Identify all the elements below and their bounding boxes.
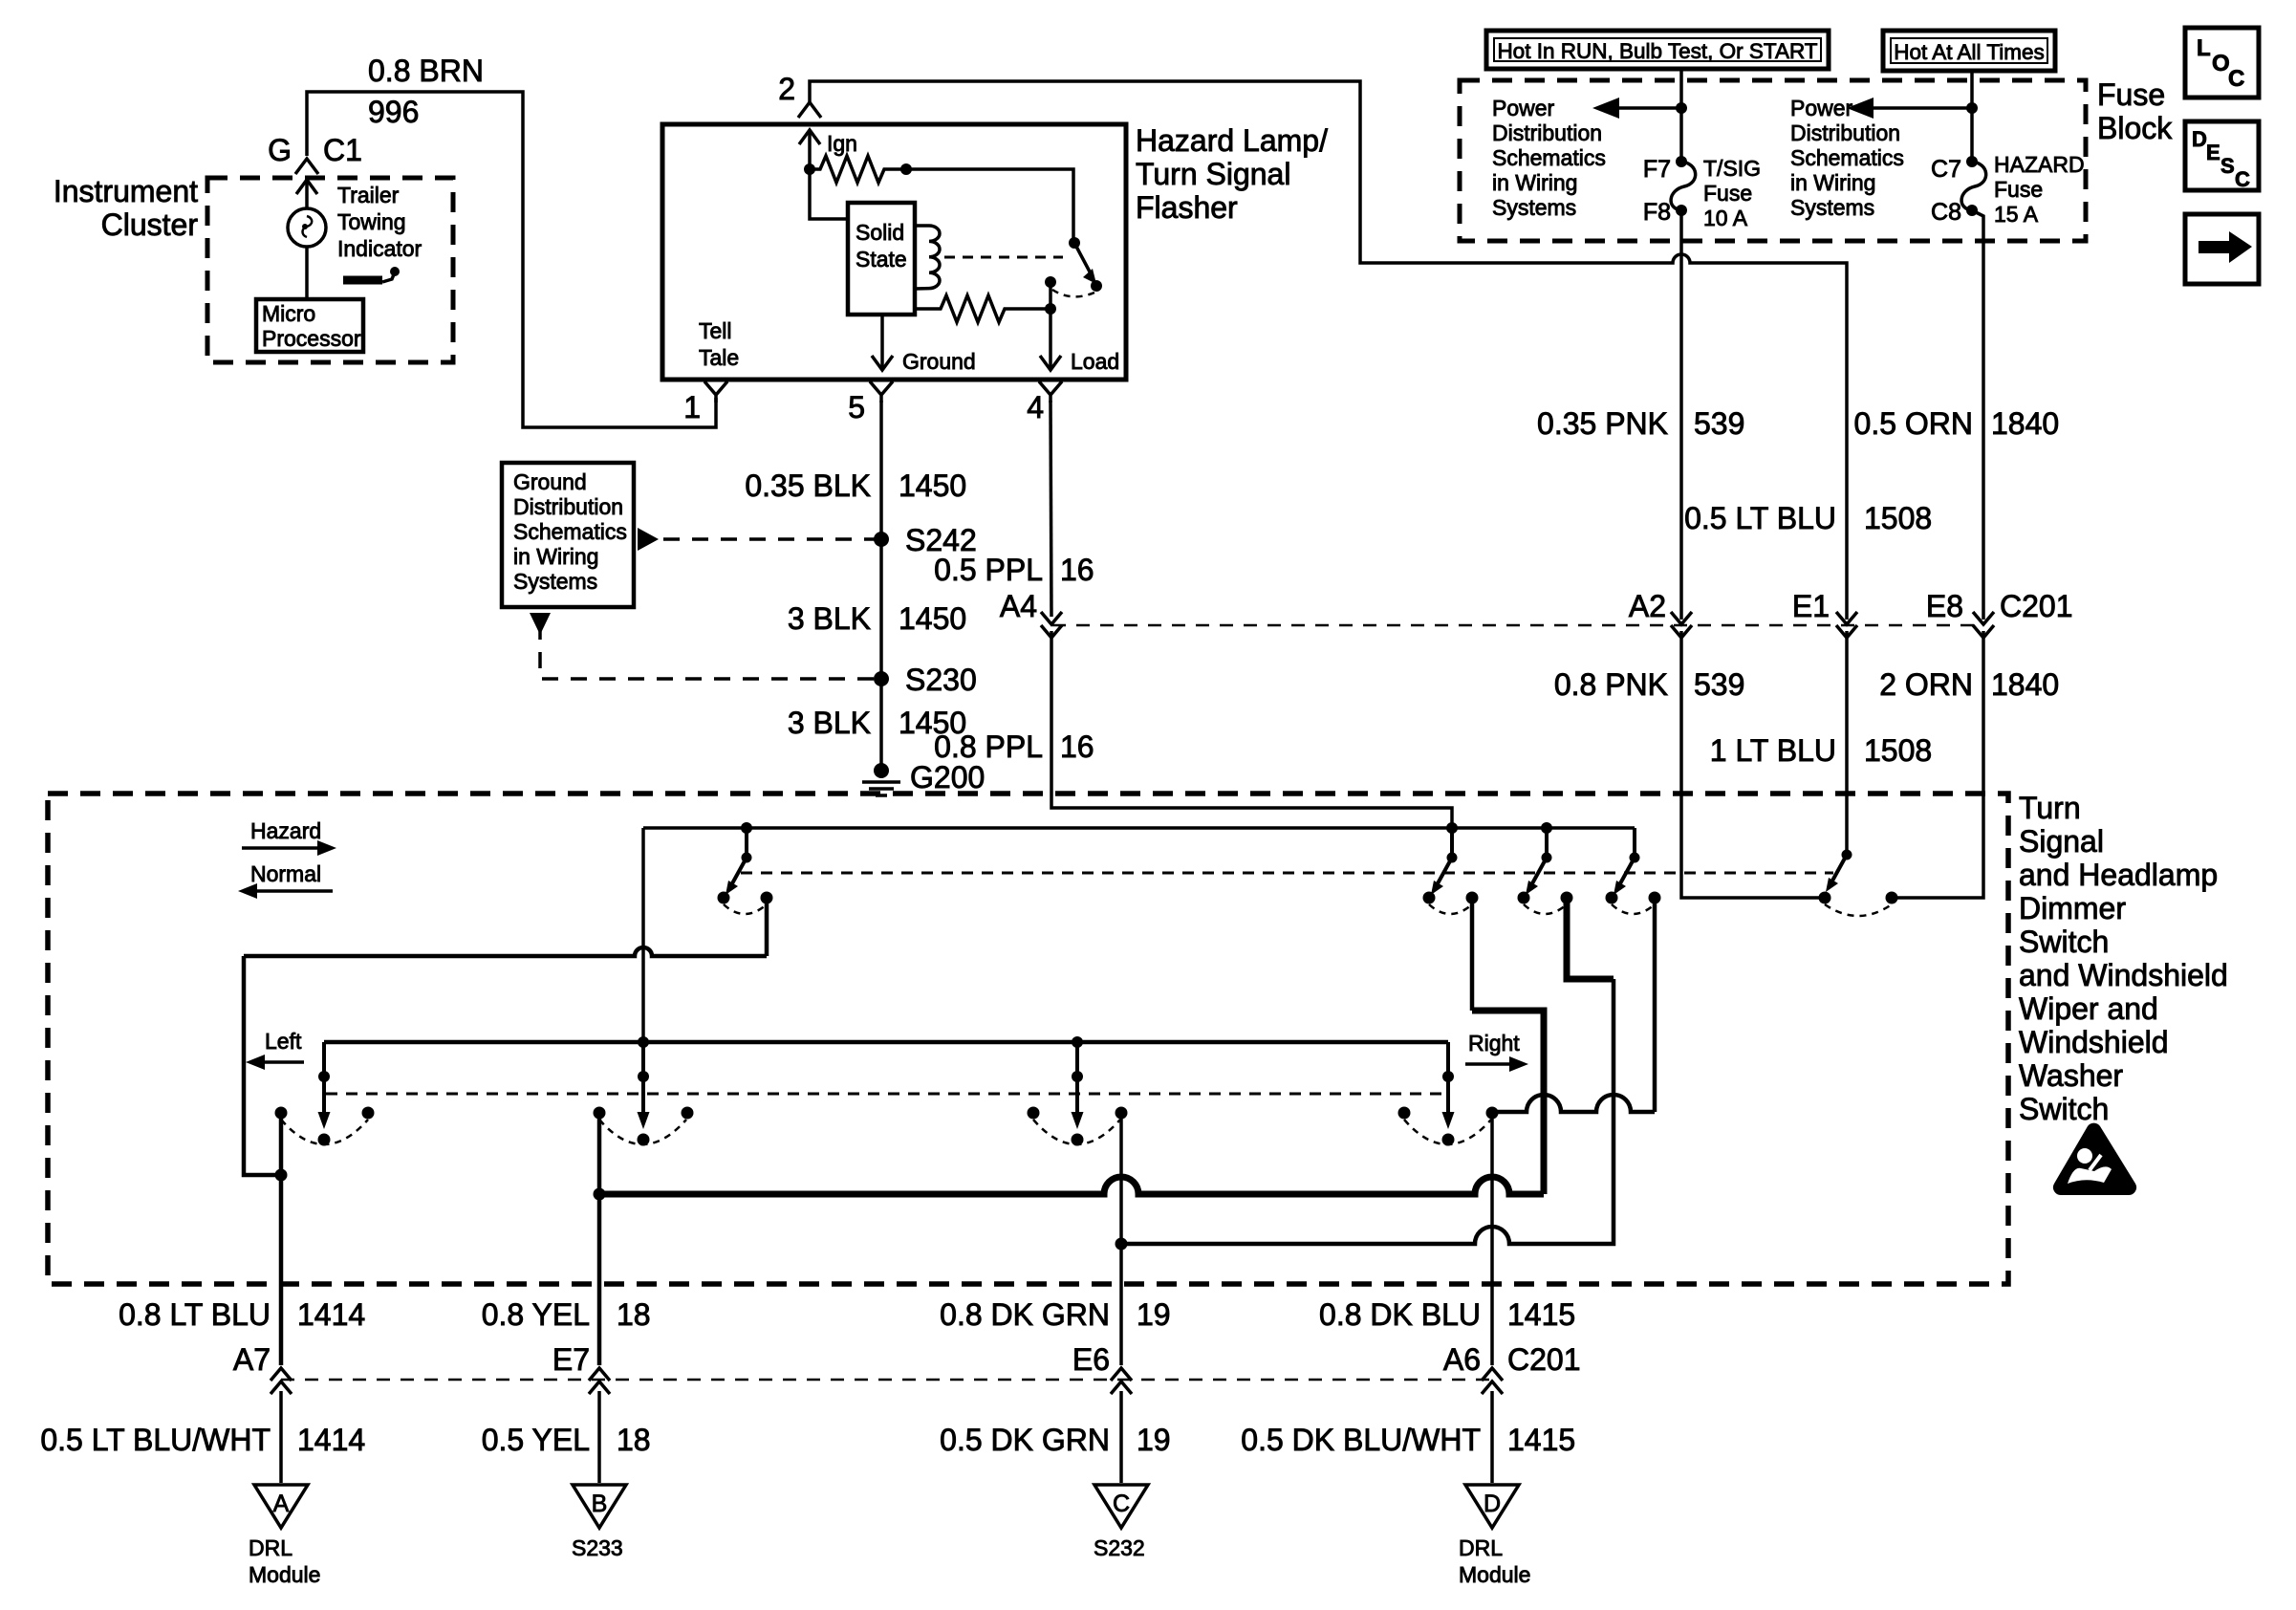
svg-text:E7: E7 (552, 1342, 590, 1377)
svg-text:3 BLK: 3 BLK (788, 601, 871, 636)
svg-text:0.35 BLK: 0.35 BLK (745, 468, 871, 503)
label Hazard with arrow (242, 818, 336, 856)
svg-text:1 LT BLU: 1 LT BLU (1710, 733, 1836, 768)
svg-text:1450: 1450 (899, 601, 966, 636)
label T/SIG Fuse 10 A (1703, 156, 1761, 230)
svg-text:1414: 1414 (297, 1297, 365, 1332)
ground distribution callout box (502, 463, 634, 607)
resistor ign (810, 156, 906, 183)
svg-text:D: D (1484, 1490, 1501, 1517)
trailer towing indicator lamp (288, 208, 326, 247)
arrow to power distribution left (1592, 98, 1681, 119)
callout arrow to S230 (530, 613, 877, 679)
node power feed right (1966, 102, 1978, 114)
svg-text:Distribution: Distribution (1492, 120, 1602, 145)
label Fuse Block (2097, 77, 2173, 145)
load arrow (1040, 309, 1061, 370)
svg-text:1: 1 (683, 390, 701, 424)
node LT BLU junction (275, 1169, 288, 1182)
lower switch 3 (1028, 1042, 1128, 1146)
svg-text:B: B (592, 1490, 608, 1517)
connector E7 chevrons (589, 1368, 610, 1394)
upper switch 2 (1423, 828, 1479, 914)
turn signal switch dashed box (48, 794, 2008, 1284)
svg-text:Indicator: Indicator (337, 236, 422, 261)
wire 0.8 BRN 996 from C1 to flasher pin 1 (307, 92, 716, 427)
label Tell Tale (699, 318, 739, 370)
node hazard feed 781 (741, 822, 752, 834)
svg-text:0.8 YEL: 0.8 YEL (482, 1297, 590, 1332)
wire switch4 output down (1653, 898, 1657, 1112)
lower switch 1 (275, 1042, 375, 1146)
svg-text:0.8 PPL: 0.8 PPL (934, 729, 1043, 764)
dashed actuation line (944, 256, 1063, 259)
svg-text:Schematics: Schematics (1790, 145, 1904, 170)
wire node to relay switch (906, 169, 1073, 243)
svg-text:S232: S232 (1094, 1535, 1145, 1560)
svg-text:Hazard Lamp/: Hazard Lamp/ (1136, 123, 1328, 158)
lower feed line left right (324, 1040, 1448, 1045)
svg-text:0.5 ORN: 0.5 ORN (1854, 406, 1973, 441)
svg-text:Fuse: Fuse (1994, 177, 2043, 202)
svg-text:in Wiring: in Wiring (1492, 170, 1577, 195)
svg-text:0.8 BRN: 0.8 BRN (368, 54, 484, 88)
node power feed left (1676, 102, 1687, 114)
warning triangle icon (2053, 1123, 2136, 1195)
svg-text:E8: E8 (1926, 589, 1963, 623)
wire 0.8 LT BLU exit (279, 1113, 284, 1365)
svg-text:Schematics: Schematics (1492, 145, 1606, 170)
svg-text:10 A: 10 A (1703, 206, 1748, 230)
wire lamp to microprocessor (305, 247, 309, 299)
wire down to LT BLU junction (244, 956, 281, 1175)
svg-text:A7: A7 (233, 1342, 271, 1377)
svg-text:Instrument: Instrument (54, 174, 198, 208)
lower coupling dashed line (326, 1093, 1448, 1096)
node yellow junction (594, 1188, 606, 1201)
hazard feed line (643, 826, 1635, 830)
svg-text:Hot In RUN, Bulb Test, Or STAR: Hot In RUN, Bulb Test, Or START (1497, 39, 1817, 63)
yellow staircase link (1472, 1011, 1544, 1194)
relay coil (915, 226, 940, 289)
svg-text:1840: 1840 (1991, 406, 2059, 441)
svg-text:0.5 DK GRN: 0.5 DK GRN (940, 1423, 1110, 1457)
svg-text:F8: F8 (1643, 199, 1671, 226)
svg-text:C7: C7 (1931, 156, 1961, 183)
fuse T/SIG 10A symbol (1671, 156, 1696, 216)
svg-text:C: C (1113, 1490, 1130, 1517)
node lower feed 1127 (1072, 1036, 1083, 1048)
svg-text:18: 18 (617, 1423, 651, 1457)
svg-text:State: State (856, 247, 907, 272)
label Power Distribution Schematics in Wiring Systems right (1790, 96, 1904, 220)
hot in run header box (1486, 31, 1829, 69)
node ign right (900, 163, 912, 175)
wire 0.35 PNK 539 F8 to A2 (1679, 210, 1683, 620)
svg-text:0.8 DK BLU: 0.8 DK BLU (1319, 1297, 1481, 1332)
svg-text:A6: A6 (1443, 1342, 1481, 1377)
wire 2 ORN 1840 into switch box (1897, 631, 1983, 898)
dashed throw arc (1052, 290, 1094, 296)
svg-text:Power: Power (1790, 96, 1853, 120)
connector A6 chevrons (1482, 1368, 1503, 1394)
svg-text:in Wiring: in Wiring (513, 544, 598, 569)
svg-text:Wiper and: Wiper and (2019, 991, 2158, 1026)
connector A2 chevrons (1671, 612, 1692, 638)
wire feed down to lower row (641, 828, 645, 1042)
wire hot in run to fuse F7 (1679, 69, 1683, 162)
node lower feed 673 (638, 1036, 649, 1048)
wire 0.8 DK GRN exit (1119, 1113, 1123, 1365)
svg-text:Flasher: Flasher (1136, 190, 1238, 225)
svg-text:0.5 LT BLU: 0.5 LT BLU (1684, 501, 1836, 535)
svg-text:16: 16 (1060, 729, 1094, 764)
dk grn link line (1121, 1227, 1614, 1244)
svg-text:0.35 PNK: 0.35 PNK (1537, 406, 1668, 441)
svg-text:Fuse: Fuse (1703, 181, 1752, 206)
hazard flasher box (662, 124, 1126, 380)
svg-text:Ign: Ign (827, 131, 857, 156)
micro processor box (256, 299, 363, 352)
arrow to power distribution right (1847, 98, 1972, 119)
svg-text:Micro: Micro (262, 301, 315, 326)
svg-text:0.5 YEL: 0.5 YEL (482, 1423, 590, 1457)
svg-text:A: A (273, 1490, 290, 1517)
lower switch 2 (594, 1042, 694, 1146)
triangle B (573, 1485, 626, 1528)
connector E1 chevrons (1836, 612, 1857, 638)
svg-text:18: 18 (617, 1297, 651, 1332)
svg-text:Module: Module (1459, 1562, 1530, 1587)
svg-text:C1: C1 (323, 133, 362, 167)
svg-text:1415: 1415 (1507, 1297, 1575, 1332)
svg-text:Hazard: Hazard (250, 818, 321, 843)
svg-text:3 BLK: 3 BLK (788, 706, 871, 740)
svg-text:2: 2 (778, 72, 795, 106)
trailer hitch icon (343, 267, 400, 282)
svg-text:1508: 1508 (1864, 501, 1932, 535)
svg-text:1840: 1840 (1991, 667, 2059, 702)
svg-text:G200: G200 (910, 760, 985, 794)
wire switch1 output to lamp line (765, 898, 769, 956)
wire node to solid state (810, 169, 848, 219)
svg-text:1508: 1508 (1864, 733, 1932, 768)
svg-text:19: 19 (1137, 1297, 1171, 1332)
yellow link line (597, 1177, 1544, 1194)
svg-text:E: E (2206, 141, 2220, 164)
svg-text:S233: S233 (572, 1535, 623, 1560)
triangle D (1465, 1485, 1519, 1528)
connector C1 chevron (295, 159, 318, 174)
svg-text:Signal: Signal (2019, 824, 2104, 859)
svg-text:0.5 DK BLU/WHT: 0.5 DK BLU/WHT (1241, 1423, 1481, 1457)
svg-text:2 ORN: 2 ORN (1879, 667, 1973, 702)
relay contact (1045, 276, 1056, 288)
svg-text:Trailer: Trailer (337, 183, 400, 207)
svg-text:1415: 1415 (1507, 1423, 1575, 1457)
svg-text:DRL: DRL (1459, 1535, 1503, 1560)
svg-text:F7: F7 (1643, 156, 1671, 183)
svg-text:4: 4 (1027, 390, 1044, 424)
label Trailer Towing Indicator (337, 183, 422, 261)
arrow into flasher pin2 (799, 130, 820, 169)
svg-text:Tell: Tell (699, 318, 732, 343)
wire 0.8 PPL A4 into switch box (1051, 631, 1452, 858)
wire hot at all times to fuse C7 (1970, 71, 1974, 162)
wire 0.8 PNK 539 into switch box (1681, 631, 1819, 898)
hazard normal switch 5 (1819, 850, 1898, 917)
label Instrument Cluster (54, 174, 199, 242)
svg-text:C201: C201 (1507, 1342, 1581, 1377)
node load (1045, 303, 1056, 315)
svg-text:Solid: Solid (856, 220, 904, 245)
connector E6 chevrons (1111, 1368, 1132, 1394)
svg-text:Windshield: Windshield (2019, 1025, 2169, 1059)
wire 0.8 DK BLU exit (1490, 1113, 1494, 1365)
label Micro Processor (262, 301, 361, 351)
dk blu link line (1492, 1095, 1655, 1112)
label Power Distribution Schematics in Wiring Systems left (1492, 96, 1606, 220)
hot at all times header box (1883, 31, 2055, 71)
wire 0.5 YEL to triangle B (597, 1391, 601, 1483)
label Left with arrow (246, 1029, 304, 1070)
arrow into cluster (296, 180, 317, 208)
label Ground Distribution Schematics in Wiring Systems (513, 469, 627, 594)
connector A4 chevrons (1041, 612, 1062, 638)
node hazard feed 1618 (1541, 822, 1552, 834)
svg-text:Module: Module (249, 1562, 320, 1587)
svg-text:T/SIG: T/SIG (1703, 156, 1761, 181)
label Right with arrow (1465, 1031, 1528, 1072)
svg-text:0.5 LT BLU/WHT: 0.5 LT BLU/WHT (40, 1423, 271, 1457)
wire 0.5 ORN 1840 C8 to E8 (1972, 210, 1983, 620)
svg-text:E6: E6 (1072, 1342, 1110, 1377)
splice S230 (874, 671, 889, 686)
resistor lower (915, 295, 1051, 322)
label DRL Module A (249, 1535, 320, 1587)
svg-text:1450: 1450 (899, 468, 966, 503)
svg-text:Normal: Normal (250, 861, 321, 886)
dk grn staircase (1612, 979, 1616, 1243)
svg-text:Left: Left (265, 1029, 302, 1054)
wire contact to load pin (1049, 282, 1052, 309)
svg-text:HAZARD: HAZARD (1994, 152, 2085, 177)
label Normal with arrow (238, 861, 333, 899)
connector E8 chevrons (1973, 612, 1994, 638)
triangle A (254, 1485, 308, 1528)
upper switch 4 (1606, 828, 1661, 914)
pin 5 connector (870, 381, 893, 402)
svg-text:Block: Block (2097, 111, 2173, 145)
svg-text:Tale: Tale (699, 345, 739, 370)
svg-text:Turn Signal: Turn Signal (1136, 157, 1290, 191)
wire 0.5 LT BLU/WHT to triangle A (279, 1391, 283, 1483)
svg-text:S: S (2220, 154, 2235, 178)
svg-text:539: 539 (1694, 406, 1744, 441)
forward arrow box (2185, 214, 2259, 284)
ground arrow (872, 315, 893, 370)
solid state box (848, 203, 915, 315)
svg-text:S230: S230 (905, 663, 977, 697)
svg-text:A4: A4 (1000, 589, 1037, 623)
wire 0.35 BLK 1450 ground path pin5 to G200 (879, 401, 883, 772)
label Hazard Lamp / Turn Signal Flasher (1136, 123, 1328, 225)
connector A7 chevrons (271, 1368, 292, 1394)
wire 0.5 DK GRN to triangle C (1119, 1391, 1123, 1483)
wire switch2 output down (1470, 898, 1475, 1011)
DESC box (2185, 121, 2259, 191)
svg-text:in Wiring: in Wiring (1790, 170, 1875, 195)
svg-text:996: 996 (368, 95, 419, 129)
svg-text:Hot At All Times: Hot At All Times (1894, 40, 2045, 64)
svg-text:Dimmer: Dimmer (2019, 891, 2126, 925)
svg-text:Ground: Ground (902, 349, 976, 374)
svg-text:Systems: Systems (1492, 195, 1576, 220)
svg-text:DRL: DRL (249, 1535, 292, 1560)
upper switch 1 (718, 828, 773, 914)
connector C201 dashed line (1052, 624, 1983, 627)
triangle C (1094, 1485, 1148, 1528)
label HAZARD Fuse 15 A (1994, 152, 2085, 227)
svg-text:Systems: Systems (1790, 195, 1874, 220)
hazard coupling dashed line (741, 872, 1833, 875)
svg-text:L: L (2197, 35, 2211, 61)
svg-text:Schematics: Schematics (513, 519, 627, 544)
relay switch arm (1069, 237, 1102, 292)
node hazard feed 1519 (1446, 822, 1458, 834)
fuse block dashed box (1460, 80, 2086, 241)
ground G200 (862, 763, 900, 795)
svg-text:Cluster: Cluster (101, 207, 199, 242)
label Solid State (856, 220, 907, 272)
instrument cluster dashed box (207, 178, 453, 362)
wire 0.5 PPL pin4 to A4 (1051, 401, 1051, 617)
pin 1 connector (704, 381, 727, 402)
fuse HAZARD 15A symbol (1961, 156, 1986, 216)
wire 0.8 YEL exit (597, 1113, 602, 1365)
svg-text:and Headlamp: and Headlamp (2019, 858, 2218, 892)
svg-text:1414: 1414 (297, 1423, 365, 1457)
svg-text:and Windshield: and Windshield (2019, 958, 2228, 992)
svg-text:15 A: 15 A (1994, 202, 2039, 227)
node ign left (804, 163, 815, 175)
svg-text:Fuse: Fuse (2097, 77, 2165, 112)
svg-text:16: 16 (1060, 553, 1094, 587)
left turn link line (244, 947, 767, 956)
svg-text:G: G (268, 133, 292, 167)
svg-text:539: 539 (1694, 667, 1744, 702)
label Turn Signal and Headlamp Dimmer Switch and Windshield Wiper and Windshield Washer Switch (2019, 791, 2228, 1126)
svg-text:Washer: Washer (2019, 1058, 2123, 1093)
pin 4 connector (1039, 381, 1062, 402)
wire 1 LT BLU 1508 to hazard switch (1845, 631, 1849, 855)
svg-text:Ground: Ground (513, 469, 587, 494)
svg-text:Distribution: Distribution (1790, 120, 1900, 145)
callout arrow to S242 (638, 528, 877, 551)
splice S242 (874, 532, 889, 547)
svg-text:5: 5 (848, 390, 865, 424)
wire switch3 output down (1567, 898, 1614, 979)
svg-text:O: O (2212, 51, 2230, 76)
svg-text:C: C (2228, 66, 2244, 92)
svg-text:Distribution: Distribution (513, 494, 623, 519)
svg-text:Switch: Switch (2019, 1092, 2109, 1126)
svg-text:Right: Right (1468, 1031, 1520, 1055)
LOC box (2185, 28, 2259, 98)
svg-text:C: C (2235, 167, 2250, 191)
svg-text:Power: Power (1492, 96, 1555, 120)
svg-text:Turn: Turn (2019, 791, 2081, 825)
svg-text:C8: C8 (1931, 199, 1961, 226)
svg-text:Switch: Switch (2019, 925, 2109, 959)
wire pin2 to turn signal switch E1 (810, 81, 1847, 620)
svg-text:E1: E1 (1792, 589, 1830, 623)
svg-text:Towing: Towing (337, 209, 406, 234)
wire 0.5 DK BLU/WHT to triangle D (1490, 1391, 1494, 1483)
label DRL Module D (1459, 1535, 1530, 1587)
upper switch 3 (1518, 828, 1573, 914)
lower switch 4 (1398, 1042, 1499, 1146)
svg-text:Systems: Systems (513, 569, 597, 594)
svg-text:0.8 DK GRN: 0.8 DK GRN (940, 1297, 1110, 1332)
svg-text:0.8 PNK: 0.8 PNK (1554, 667, 1668, 702)
svg-text:Processor: Processor (262, 326, 361, 351)
svg-text:C201: C201 (2000, 589, 2073, 623)
svg-text:D: D (2192, 127, 2207, 151)
pin 2 connector chevron (798, 102, 821, 118)
svg-text:0.5 PPL: 0.5 PPL (934, 553, 1043, 587)
svg-text:Load: Load (1071, 349, 1119, 374)
svg-text:A2: A2 (1629, 589, 1666, 623)
svg-text:19: 19 (1137, 1423, 1171, 1457)
svg-text:0.8 LT BLU: 0.8 LT BLU (119, 1297, 271, 1332)
node dk grn junction (1116, 1238, 1128, 1251)
connector C201 bottom dashed line (281, 1379, 1492, 1382)
